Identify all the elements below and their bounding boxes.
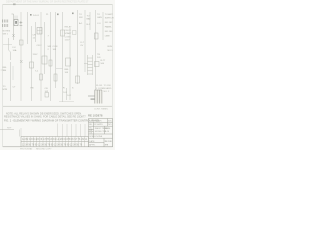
svg-text:TO SW: TO SW [104, 85, 112, 87]
svg-text:REF: REF [7, 128, 12, 130]
svg-text:APPR.: APPR. [89, 144, 95, 147]
svg-text:CK.: CK. [89, 133, 93, 135]
svg-text:BOARD: BOARD [104, 87, 112, 90]
svg-text:CONT. PANEL: CONT. PANEL [94, 107, 109, 110]
terminal strip TB1 [88, 55, 93, 75]
svg-text:RECORD COPY: RECORD COPY [36, 148, 52, 150]
sheet border [3, 5, 113, 147]
resistor R4 [95, 62, 100, 67]
svg-text:GEN: GEN [97, 17, 102, 19]
svg-text:FIG. 2 - ELEMENTARY WIRING DIA: FIG. 2 - ELEMENTARY WIRING DIAGRAM OF TR… [4, 118, 100, 122]
wire V11 [69, 28, 71, 100]
svg-text:TO: TO [79, 14, 82, 16]
svg-text:TO: TO [87, 16, 90, 18]
svg-text:CR 2: CR 2 [37, 45, 43, 47]
parts table text [22, 138, 88, 146]
parts table [3, 137, 113, 147]
wire to cable [88, 95, 95, 97]
transformer T1 [42, 56, 47, 64]
relay K7 [95, 33, 99, 39]
svg-text:TO: TO [3, 86, 6, 88]
svg-text:CR: CR [33, 35, 37, 37]
resistor R3 [76, 76, 80, 83]
cable W1 labels [96, 85, 112, 93]
svg-text:TO ANT: TO ANT [105, 13, 114, 16]
wire V5 [35, 22, 37, 42]
svg-text:TO: TO [97, 14, 100, 16]
svg-text:BUS: BUS [108, 46, 113, 48]
svg-text:BAT: BAT [87, 18, 92, 21]
resistor R5 [40, 74, 43, 80]
wire stub left low [1, 69, 5, 71]
cable junction dash [91, 99, 95, 100]
svg-text:115V: 115V [65, 40, 70, 42]
svg-text:CON: CON [53, 46, 58, 48]
resistor R1 [49, 60, 52, 66]
svg-text:PANEL: PANEL [105, 26, 113, 29]
svg-text:MTR: MTR [3, 89, 8, 91]
contactor M1 [73, 31, 77, 35]
svg-text:SWITCH: SWITCH [105, 18, 114, 20]
wire V17 [9, 38, 11, 60]
wire V15 [95, 10, 97, 90]
svg-text:DEPARTMENT OF THE NAVY BUREA: DEPARTMENT OF THE NAVY BUREAU OF SHIPS R… [6, 1, 89, 4]
relay K4 [66, 58, 71, 66]
resistor R2 [54, 74, 57, 81]
svg-text:10A: 10A [13, 49, 17, 52]
parts table dividers [24, 137, 89, 147]
svg-text:MODEL TBK-16: MODEL TBK-16 [95, 131, 110, 133]
svg-text:BU. OF SHIPS: BU. OF SHIPS [89, 124, 103, 126]
fold mark [13, 4, 16, 6]
svg-text:PHOTOSTAT: PHOTOSTAT [20, 147, 33, 150]
svg-text:SW 1: SW 1 [3, 33, 9, 35]
switch S1 [14, 20, 18, 26]
wire V8 [50, 12, 52, 101]
svg-text:NO. 2: NO. 2 [104, 91, 110, 93]
svg-text:RADIO TRANSM.: RADIO TRANSM. [95, 127, 111, 130]
junction dot B [57, 14, 59, 16]
svg-text:NO.102: NO.102 [105, 22, 113, 24]
wire V12 [77, 10, 79, 84]
svg-text:CB: CB [45, 88, 49, 90]
svg-text:CONT.: CONT. [65, 36, 72, 38]
wire stub left [3, 44, 12, 46]
relay CR-21 label block [65, 26, 73, 42]
svg-text:DATE: DATE [89, 140, 95, 143]
wire V16 [102, 12, 104, 40]
legend table columns [21, 124, 85, 137]
relay K1 [37, 28, 42, 35]
contact X1 [20, 60, 23, 63]
wire V6 [40, 12, 42, 101]
svg-text:W-101: W-101 [96, 85, 103, 87]
svg-text:NO.: NO. [108, 124, 112, 126]
cable W1 [95, 90, 103, 104]
relay K3 [61, 30, 65, 36]
svg-text:B.S.: B.S. [108, 120, 112, 122]
svg-text:SCALE NONE: SCALE NONE [89, 135, 103, 138]
wire V1 [12, 14, 14, 40]
svg-text:NO.1: NO.1 [108, 50, 114, 52]
svg-text:RELAY: RELAY [65, 26, 73, 29]
svg-text:RESISTANCE VALUES IN OHMS. FO: RESISTANCE VALUES IN OHMS. FOR CABLE DET… [4, 115, 87, 118]
wire V2 [20, 12, 22, 101]
sheet background [0, 0, 115, 150]
svg-text:12 34 56 78 90 12 34 56: 12 34 56 78 90 12 34 56 78 90 12 34 56 7… [22, 145, 83, 147]
bus line [3, 105, 112, 107]
wire V19 [12, 66, 14, 80]
svg-text:FU: FU [13, 47, 16, 49]
svg-text:CR-21: CR-21 [65, 30, 72, 32]
svg-text:NO.104: NO.104 [105, 31, 113, 33]
fuse F1 [2, 20, 4, 28]
switch S1 leads [15, 16, 17, 21]
wire V7 [44, 22, 46, 74]
wire V13 [84, 10, 86, 72]
svg-text:NAVY DEPT.: NAVY DEPT. [91, 119, 103, 122]
wire V18 [10, 62, 12, 101]
top margin line [3, 4, 112, 6]
svg-text:D-101: D-101 [33, 15, 40, 17]
title block [89, 119, 113, 147]
junction dot A [30, 14, 32, 16]
relay K2 [20, 40, 24, 45]
label texture: component designations [3, 13, 114, 93]
wire V9 [55, 12, 57, 88]
wire stub mid [56, 68, 63, 70]
coil L1 [30, 62, 34, 68]
circuit breaker CB102 [45, 93, 49, 98]
svg-text:LINE: LINE [105, 36, 110, 38]
svg-text:A1 B2 C3 D4 E5 F6 G7 H8: A1 B2 C3 D4 E5 F6 G7 H8 J9 K1 L2 M3 N4 P… [22, 138, 88, 141]
junction dot C [72, 13, 74, 15]
fuse F2 [6, 20, 8, 28]
svg-text:START: START [65, 32, 73, 35]
wire V3 [27, 12, 29, 44]
relay K5 lead [66, 88, 68, 100]
return bus stub [59, 101, 74, 103]
notes text [4, 112, 87, 118]
svg-text:NOTES: NOTES [3, 31, 11, 33]
revision strip divider [18, 130, 20, 137]
wire V10 [62, 12, 64, 102]
svg-text:RE 10D878: RE 10D878 [88, 114, 103, 118]
junction node [20, 21, 23, 26]
revision strip line [0, 129, 14, 131]
title block text [89, 119, 112, 146]
svg-text:RE 10D: RE 10D [105, 141, 113, 143]
svg-text:R-77: R-77 [101, 60, 107, 62]
wire V14 [89, 12, 91, 30]
svg-text:115V: 115V [33, 54, 38, 56]
contact X2 [12, 34, 14, 37]
wire stub TB1 [84, 63, 88, 65]
wire V4 [31, 26, 33, 101]
